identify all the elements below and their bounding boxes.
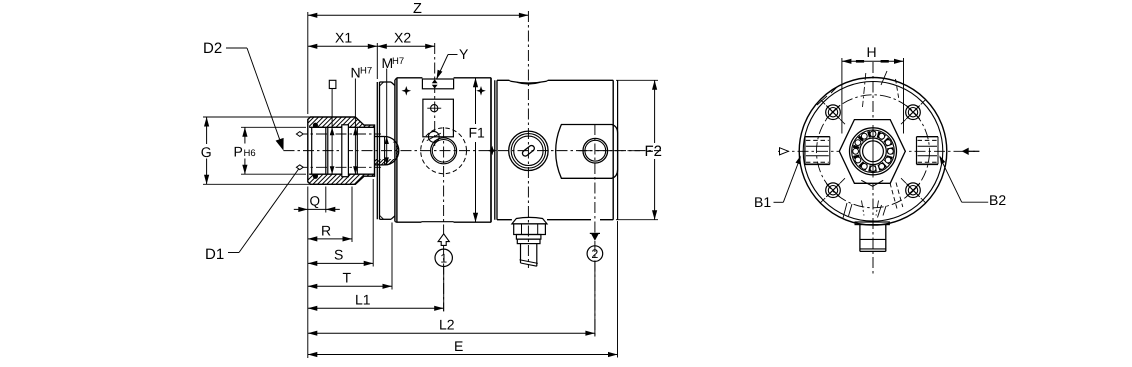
svg-text:X2: X2 xyxy=(394,30,411,46)
svg-text:F1: F1 xyxy=(469,125,486,141)
svg-text:Z: Z xyxy=(413,1,422,17)
svg-text:Q: Q xyxy=(310,194,321,209)
svg-text:T: T xyxy=(343,270,352,286)
svg-text:L1: L1 xyxy=(355,292,371,308)
svg-text:Y: Y xyxy=(459,46,469,62)
svg-text:H7: H7 xyxy=(392,56,404,67)
svg-text:E: E xyxy=(454,338,463,354)
svg-text:R: R xyxy=(321,223,331,239)
svg-text:H: H xyxy=(867,44,877,60)
svg-text:1: 1 xyxy=(440,251,447,265)
svg-text:L2: L2 xyxy=(439,317,455,333)
svg-text:F2: F2 xyxy=(645,143,663,160)
svg-text:P: P xyxy=(234,144,243,160)
svg-text:B1: B1 xyxy=(754,194,771,210)
svg-text:D1: D1 xyxy=(205,246,224,263)
svg-text:S: S xyxy=(334,247,343,263)
svg-text:H7: H7 xyxy=(360,66,372,77)
svg-text:2: 2 xyxy=(591,247,598,261)
svg-text:D2: D2 xyxy=(203,40,222,57)
svg-text:G: G xyxy=(201,144,212,160)
svg-text:B2: B2 xyxy=(989,192,1006,208)
svg-text:X1: X1 xyxy=(335,30,352,46)
svg-text:H6: H6 xyxy=(244,148,256,159)
